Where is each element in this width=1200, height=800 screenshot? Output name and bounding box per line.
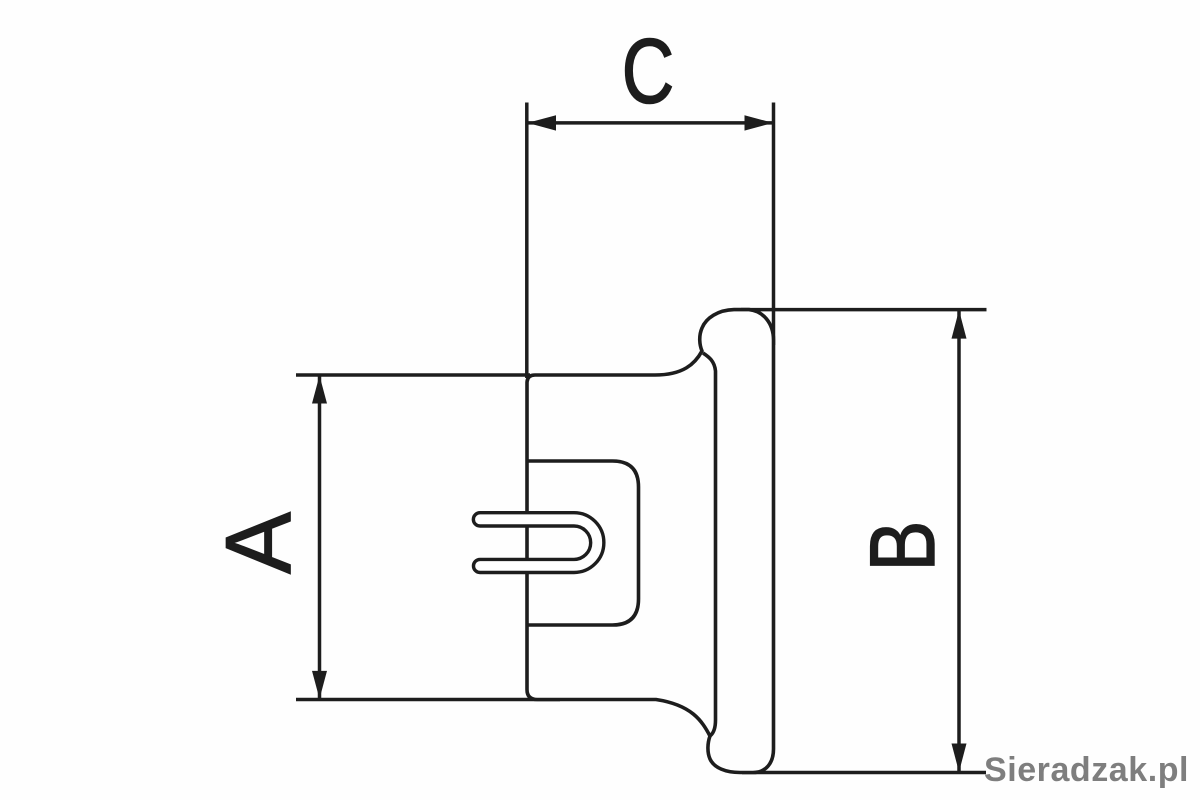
arrowhead C left [528,115,557,130]
arrowhead A bottom [312,671,327,699]
dimension line A [318,376,322,699]
dimension line C [528,121,773,125]
extension line C left [525,103,529,379]
arrowhead A top [312,376,327,404]
extension line B bottom [742,771,986,775]
dimension line B [957,311,961,772]
arrowhead C right [745,115,774,130]
prong (U-shaped spring clip) [473,513,604,573]
inner cap rectangle [527,461,639,625]
svg-text:C: C [622,19,674,122]
extension line B top [741,308,987,312]
part silhouette (cap body with flange) [527,310,774,773]
arrowhead B bottom [952,744,967,773]
arrowhead B top [952,310,967,339]
extension line A top [296,373,530,377]
extension line C right [772,103,776,346]
extension line A bottom [296,698,560,702]
svg-text:Sieradzak.pl: Sieradzak.pl [984,751,1189,789]
svg-text:B: B [850,521,953,572]
svg-text:A: A [206,512,310,574]
flange left face line [703,353,716,736]
